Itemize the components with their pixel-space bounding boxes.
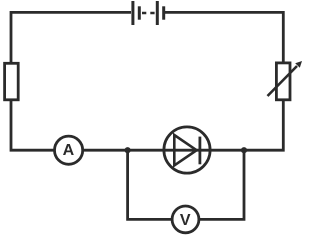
svg-text:V: V [180, 212, 191, 229]
svg-text:A: A [63, 142, 75, 159]
